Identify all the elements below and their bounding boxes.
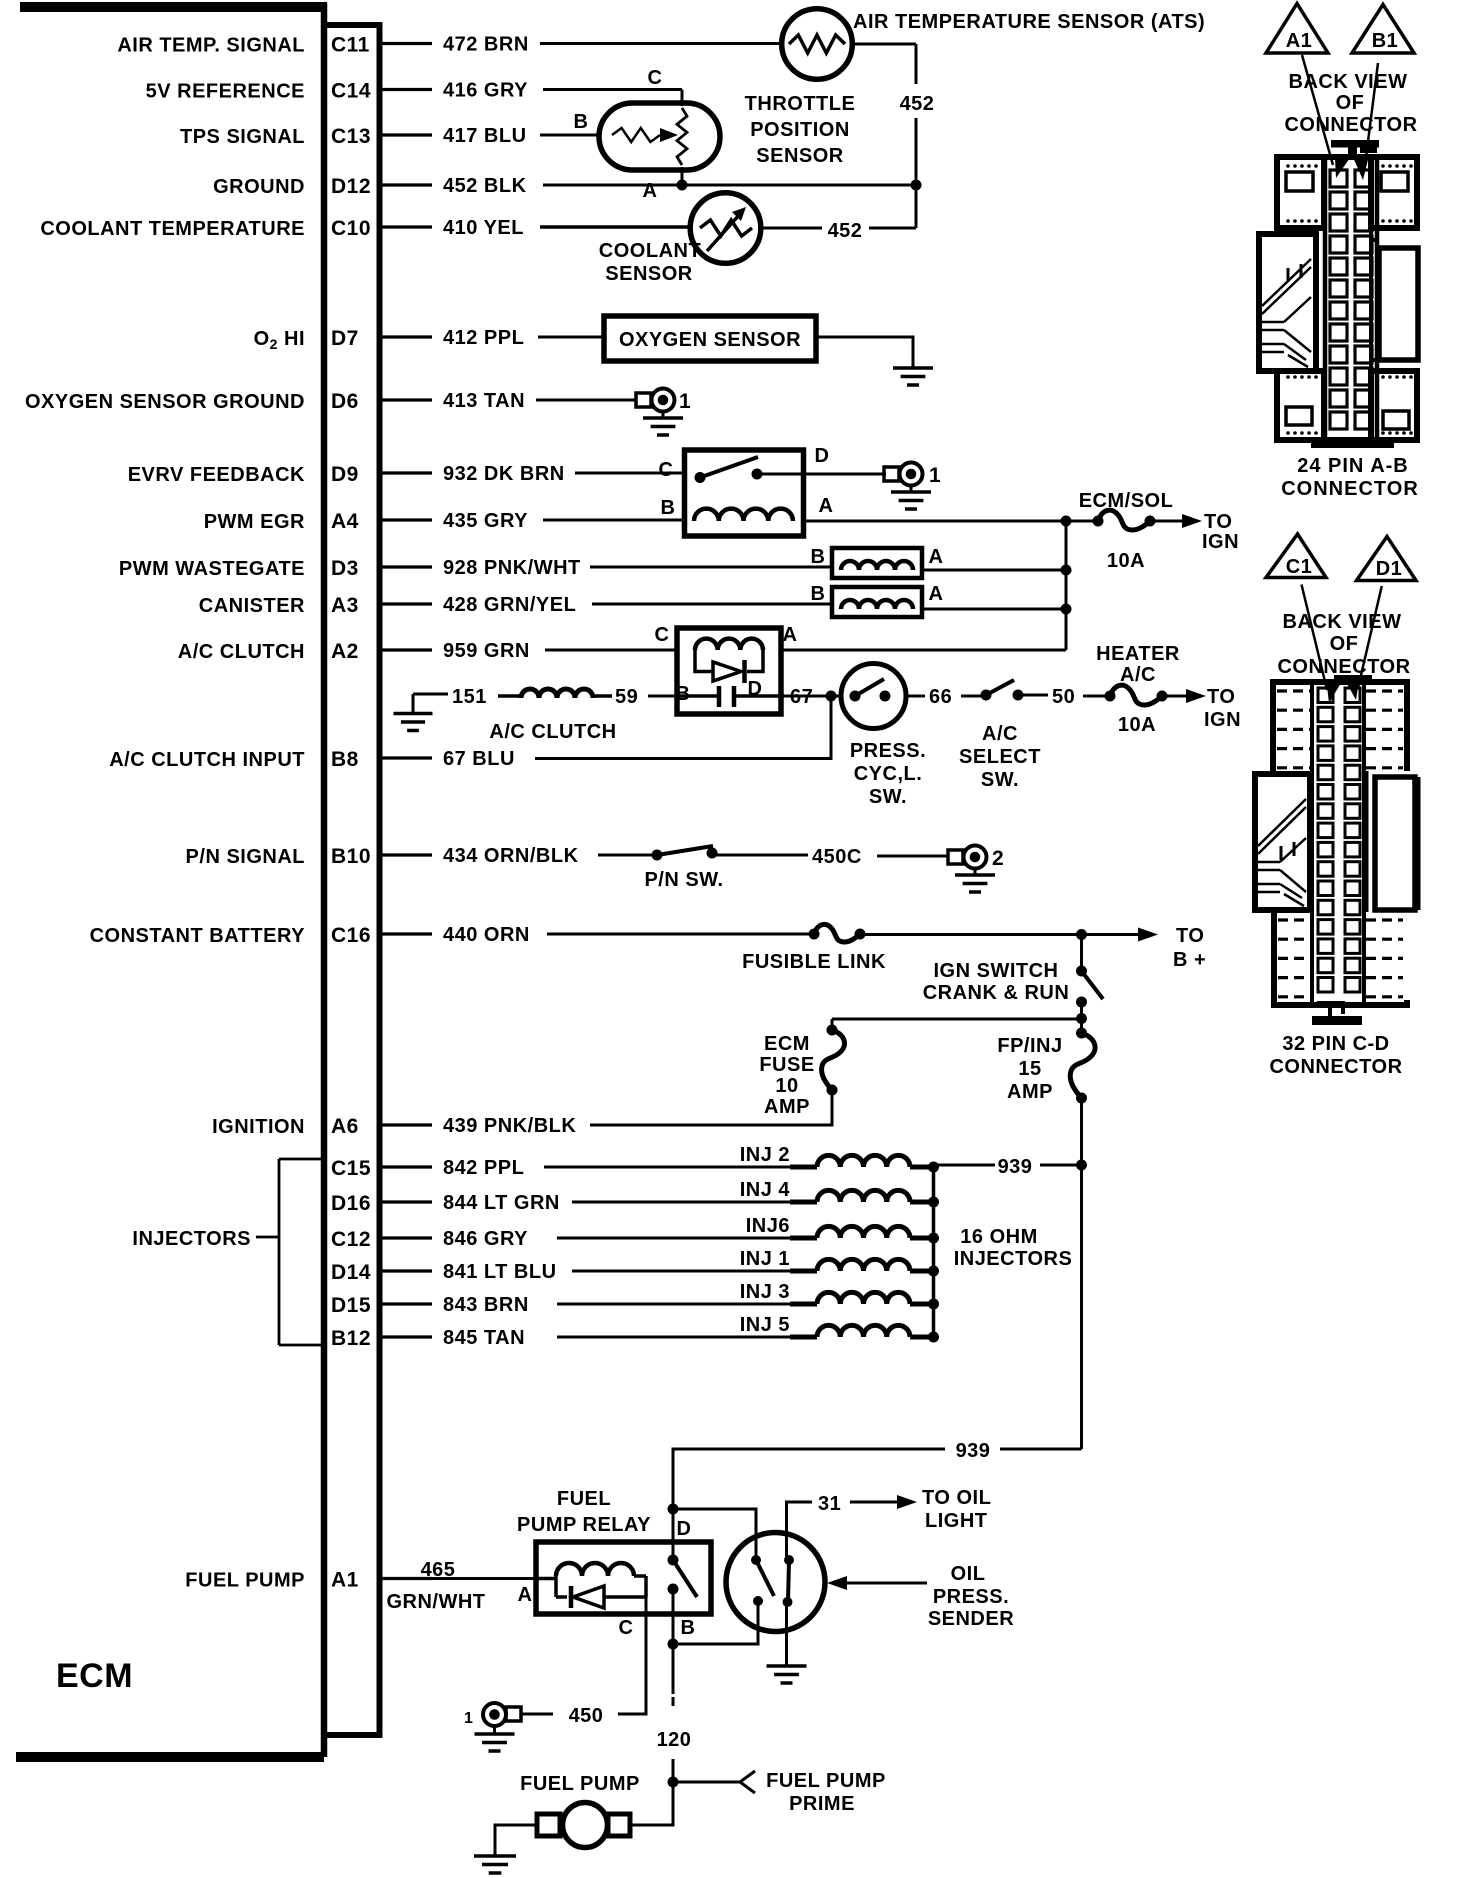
svg-text:ECM/SOL: ECM/SOL bbox=[1079, 490, 1174, 512]
svg-text:ECM: ECM bbox=[56, 1657, 133, 1695]
24-pin pin grid bbox=[1330, 170, 1347, 187]
AC relay coil bbox=[695, 639, 763, 650]
svg-text:HEATERA/C: HEATERA/C bbox=[1096, 643, 1180, 686]
svg-text:B: B bbox=[676, 683, 691, 705]
svg-text:120: 120 bbox=[657, 1729, 692, 1751]
svg-text:C: C bbox=[659, 459, 674, 481]
wire coolant to 452 label bbox=[761, 227, 822, 230]
ring terminal 450 bbox=[506, 1707, 521, 1721]
wire D3 to wastegate coil bbox=[590, 566, 832, 569]
coolant sensor zigzag bbox=[700, 220, 752, 236]
svg-text:D: D bbox=[677, 1518, 692, 1540]
svg-text:BACK VIEWOFCONNECTOR: BACK VIEWOFCONNECTOR bbox=[1277, 611, 1410, 678]
svg-text:932 DK BRN: 932 DK BRN bbox=[443, 463, 565, 485]
ignition switch bbox=[1076, 966, 1087, 977]
wire prime node to motor bbox=[630, 1782, 673, 1825]
svg-text:D3: D3 bbox=[331, 557, 359, 580]
wire branch to ECM fuse bbox=[832, 1018, 1082, 1021]
node B/sender bbox=[668, 1639, 679, 1650]
injectors bracket bbox=[256, 1159, 324, 1345]
svg-text:C11: C11 bbox=[331, 34, 370, 57]
EVRV coil bbox=[694, 509, 793, 521]
ECM box top bar bbox=[20, 2, 327, 12]
svg-text:939: 939 bbox=[956, 1440, 991, 1462]
node A4/fuse bbox=[1061, 516, 1072, 527]
AC relay contact bbox=[717, 686, 722, 707]
svg-text:A3: A3 bbox=[331, 594, 359, 617]
wire ATS to 452 vertical bbox=[852, 43, 916, 46]
wire oxygen sensor to ground bbox=[816, 337, 913, 367]
node 939 bbox=[1076, 1160, 1087, 1171]
wire motor to ground bbox=[495, 1825, 537, 1855]
coolant sensor circle bbox=[690, 193, 761, 264]
arrow TO B+ bbox=[1138, 928, 1158, 942]
24-pin ML hatch bbox=[1288, 264, 1301, 282]
wire PN switch to 450C bbox=[712, 854, 808, 857]
ground (sender) bbox=[767, 1666, 807, 1683]
svg-text:31: 31 bbox=[818, 1493, 841, 1515]
TPS track zigzag bbox=[677, 108, 687, 165]
triangle A1 bbox=[1266, 4, 1328, 54]
wire heater fuse to arrow bbox=[1162, 695, 1187, 698]
svg-text:A1: A1 bbox=[1286, 30, 1313, 52]
oxygen sensor box bbox=[604, 316, 816, 361]
press cyc switch circle bbox=[841, 664, 906, 729]
svg-text:C: C bbox=[648, 67, 663, 89]
fuel pump motor bbox=[537, 1814, 560, 1836]
svg-text:C1: C1 bbox=[1286, 556, 1313, 578]
wire canister to junction bbox=[922, 608, 1066, 611]
wire A3 to canister coil bbox=[592, 603, 832, 606]
svg-text:COOLANTSENSOR: COOLANTSENSOR bbox=[599, 240, 701, 285]
svg-text:B: B bbox=[681, 1617, 696, 1639]
svg-text:413 TAN: 413 TAN bbox=[443, 390, 525, 412]
fuse ECM FUSE 10 AMP bbox=[827, 1025, 838, 1036]
svg-text:FUELPUMP RELAY: FUELPUMP RELAY bbox=[517, 1488, 651, 1536]
452 vertical wire upper bbox=[915, 44, 918, 228]
svg-text:THROTTLEPOSITIONSENSOR: THROTTLEPOSITIONSENSOR bbox=[745, 93, 856, 167]
wire C14 to C corner bbox=[543, 88, 682, 91]
svg-text:IGN: IGN bbox=[1204, 709, 1241, 731]
wire ECM fuse to A6 bbox=[590, 1090, 832, 1125]
svg-text:A/C CLUTCH: A/C CLUTCH bbox=[178, 641, 305, 663]
wire 120 tick bbox=[672, 1697, 675, 1706]
svg-text:CRANK & RUN: CRANK & RUN bbox=[923, 982, 1070, 1004]
wire to B+ arrow bbox=[1082, 933, 1141, 936]
svg-text:59: 59 bbox=[615, 686, 638, 708]
injector INJ 4 bbox=[572, 1201, 790, 1204]
wire TPS bottom to A junction bbox=[681, 167, 684, 185]
wire relay D branch to sender bbox=[673, 1509, 756, 1558]
wire corner down to TPS bbox=[681, 90, 684, 107]
ECM pin column box bbox=[324, 25, 380, 1735]
wire D7 to oxygen sensor bbox=[538, 336, 604, 339]
injector INJ 2 bbox=[544, 1166, 790, 1169]
wire A4 to EVRV B bbox=[543, 519, 685, 522]
svg-text:D7: D7 bbox=[331, 327, 359, 350]
svg-text:452: 452 bbox=[900, 93, 935, 115]
wire FP/INJ fuse down bbox=[1080, 1098, 1083, 1165]
wire 939 to relay corner bbox=[673, 1449, 945, 1506]
wire C10 to coolant sensor bbox=[540, 225, 691, 229]
svg-text:PRIME: PRIME bbox=[789, 1793, 855, 1815]
arrow TO IGN (ECM/SOL) bbox=[1182, 514, 1202, 528]
svg-text:842 PPL: 842 PPL bbox=[443, 1157, 524, 1179]
svg-text:FUSIBLE LINK: FUSIBLE LINK bbox=[742, 951, 886, 973]
oil pressure sender circle bbox=[726, 1533, 825, 1632]
wire C16 to fusible link bbox=[547, 933, 814, 936]
24-pin MR block bbox=[1379, 248, 1418, 360]
svg-text:24 PIN A-BCONNECTOR: 24 PIN A-BCONNECTOR bbox=[1281, 455, 1419, 500]
svg-text:INJ6: INJ6 bbox=[746, 1215, 790, 1237]
leader C1 bbox=[1302, 585, 1328, 691]
svg-text:FUEL PUMP: FUEL PUMP bbox=[520, 1773, 640, 1795]
A/C select switch bbox=[981, 690, 992, 701]
svg-text:1: 1 bbox=[464, 1710, 473, 1727]
wire C11 to ATS bbox=[540, 42, 782, 45]
svg-text:IGNITION: IGNITION bbox=[212, 1116, 305, 1138]
svg-text:D: D bbox=[815, 445, 830, 467]
svg-text:IGN: IGN bbox=[1202, 531, 1239, 553]
svg-text:32 PIN C-DCONNECTOR: 32 PIN C-DCONNECTOR bbox=[1269, 1033, 1402, 1078]
svg-text:A/CSELECTSW.: A/CSELECTSW. bbox=[959, 723, 1041, 791]
svg-text:B: B bbox=[811, 583, 826, 605]
fusible link bbox=[809, 929, 820, 940]
node D3 bbox=[1061, 565, 1072, 576]
wire fusible link to B+ node bbox=[860, 933, 1082, 936]
svg-text:INJ 4: INJ 4 bbox=[740, 1179, 791, 1201]
injector INJ 3 bbox=[557, 1303, 790, 1306]
node B8/press bbox=[826, 691, 837, 702]
svg-text:450: 450 bbox=[569, 1705, 604, 1727]
32-pin bottom tab bbox=[1317, 1003, 1343, 1017]
svg-text:FUEL PUMP: FUEL PUMP bbox=[185, 1570, 305, 1592]
wire coil to 59 bbox=[593, 694, 612, 698]
wire B down bbox=[672, 1589, 675, 1641]
svg-text:IGN SWITCH: IGN SWITCH bbox=[934, 960, 1059, 982]
svg-text:BACK VIEWOFCONNECTOR: BACK VIEWOFCONNECTOR bbox=[1284, 71, 1417, 136]
svg-text:A: A bbox=[518, 1584, 533, 1606]
svg-text:B1: B1 bbox=[1372, 30, 1399, 52]
svg-text:B: B bbox=[661, 497, 676, 519]
svg-text:C: C bbox=[619, 1617, 634, 1639]
svg-text:INJ 2: INJ 2 bbox=[740, 1144, 790, 1166]
svg-text:C: C bbox=[655, 624, 670, 646]
32-pin MR block bbox=[1375, 777, 1415, 910]
svg-text:B10: B10 bbox=[331, 845, 371, 868]
svg-text:C10: C10 bbox=[331, 217, 371, 240]
wire D9 to EVRV C bbox=[575, 472, 685, 475]
svg-text:452: 452 bbox=[828, 220, 863, 242]
svg-text:844 LT GRN: 844 LT GRN bbox=[443, 1192, 560, 1214]
svg-text:A2: A2 bbox=[331, 640, 359, 663]
svg-text:C16: C16 bbox=[331, 924, 371, 947]
wire A2 to AC relay bbox=[545, 649, 677, 652]
node TPS A bbox=[677, 180, 688, 191]
24-pin bottom bar bbox=[1311, 437, 1394, 448]
svg-text:928 PNK/WHT: 928 PNK/WHT bbox=[443, 557, 581, 579]
svg-text:450C: 450C bbox=[812, 846, 862, 868]
svg-text:151: 151 bbox=[452, 686, 487, 708]
triangle B1 bbox=[1352, 5, 1414, 54]
svg-text:D14: D14 bbox=[331, 1261, 371, 1284]
wire D6 to ring terminal bbox=[536, 399, 636, 402]
wire AC relay A to junction bbox=[781, 649, 1066, 652]
wire sender BL to relay B node bbox=[673, 1601, 758, 1644]
wire press sw to 66 bbox=[906, 695, 925, 698]
svg-text:434 ORN/BLK: 434 ORN/BLK bbox=[443, 845, 579, 867]
ATS resistor zigzag bbox=[789, 35, 845, 53]
svg-text:CONSTANT BATTERY: CONSTANT BATTERY bbox=[90, 925, 306, 947]
injector INJ6 bbox=[557, 1237, 790, 1240]
coolant sensor arrow bbox=[707, 214, 740, 251]
injector INJ 5 bbox=[557, 1336, 790, 1339]
wire A1 to relay bbox=[380, 1577, 537, 1580]
svg-text:939: 939 bbox=[998, 1156, 1033, 1178]
FP relay switch bbox=[668, 1555, 679, 1566]
svg-text:ECMFUSE10AMP: ECMFUSE10AMP bbox=[759, 1033, 814, 1118]
ECM box bottom bar bbox=[16, 1752, 324, 1762]
svg-text:452 BLK: 452 BLK bbox=[443, 175, 527, 197]
24-pin ML block bbox=[1259, 234, 1316, 371]
wire 120 to prime node bbox=[672, 1759, 675, 1782]
svg-text:A6: A6 bbox=[331, 1115, 359, 1138]
svg-text:66: 66 bbox=[929, 686, 952, 708]
wire EVRV A to junction bbox=[804, 520, 1067, 523]
32-pin shaft bbox=[1312, 682, 1364, 1003]
svg-text:10A: 10A bbox=[1118, 714, 1156, 736]
wire B10 to PN switch bbox=[598, 854, 657, 857]
svg-text:GROUND: GROUND bbox=[213, 176, 305, 198]
svg-text:OILPRESS.SENDER: OILPRESS.SENDER bbox=[928, 1563, 1014, 1630]
wire bus to 939 bbox=[934, 1164, 996, 1167]
24-pin connector top tab bbox=[1331, 140, 1379, 148]
32-pin upper section bbox=[1273, 682, 1407, 774]
ring terminal ground 2 bbox=[948, 850, 963, 864]
svg-text:5V REFERENCE: 5V REFERENCE bbox=[146, 81, 305, 103]
svg-text:A: A bbox=[819, 495, 834, 517]
wire fuse to arrow bbox=[1150, 520, 1183, 523]
wire junction to fuse bbox=[1066, 520, 1096, 523]
arrow OIL PRESS SENDER bbox=[827, 1576, 847, 1590]
svg-text:AIR TEMP. SIGNAL: AIR TEMP. SIGNAL bbox=[117, 35, 305, 57]
wire B+ node to ign switch bbox=[1080, 935, 1083, 968]
fuse ECM/SOL bbox=[1093, 516, 1104, 527]
svg-text:P/N SW.: P/N SW. bbox=[644, 869, 723, 891]
wire 452 label to vertical bbox=[869, 227, 916, 230]
svg-text:A/C CLUTCH INPUT: A/C CLUTCH INPUT bbox=[109, 749, 305, 771]
32-pin ML block bbox=[1255, 774, 1310, 910]
ECM box right edge bbox=[321, 3, 328, 1757]
svg-text:A1: A1 bbox=[331, 1569, 359, 1592]
FP relay diode bbox=[556, 1595, 567, 1599]
wire select sw to 50 bbox=[1018, 694, 1048, 697]
svg-text:TO: TO bbox=[1207, 686, 1235, 708]
node relay D top bbox=[668, 1504, 679, 1515]
wire 450 to ring bbox=[521, 1713, 553, 1716]
svg-text:439 PNK/BLK: 439 PNK/BLK bbox=[443, 1115, 576, 1137]
svg-text:841 LT BLU: 841 LT BLU bbox=[443, 1261, 557, 1283]
wire 450C to ring terminal bbox=[877, 855, 948, 858]
svg-text:A: A bbox=[929, 583, 944, 605]
ground (fuel pump) bbox=[474, 1856, 516, 1873]
svg-text:416 GRY: 416 GRY bbox=[443, 80, 528, 102]
P/N switch bbox=[652, 850, 663, 861]
wire D12 bbox=[543, 184, 916, 187]
PWM wastegate solenoid box bbox=[832, 548, 922, 578]
svg-text:TPS SIGNAL: TPS SIGNAL bbox=[180, 126, 305, 148]
node fuel pump prime bbox=[668, 1777, 679, 1788]
svg-text:COOLANT TEMPERATURE: COOLANT TEMPERATURE bbox=[40, 218, 305, 240]
node A3 bbox=[1061, 604, 1072, 615]
svg-text:INJ 1: INJ 1 bbox=[740, 1248, 790, 1270]
svg-text:D9: D9 bbox=[331, 463, 359, 486]
svg-text:D1: D1 bbox=[1376, 558, 1403, 580]
svg-text:INJ 5: INJ 5 bbox=[740, 1314, 790, 1336]
junction vertical (fuse bus) bbox=[1065, 521, 1068, 650]
wire ign switch down bbox=[1080, 1002, 1083, 1033]
svg-text:16 OHMINJECTORS: 16 OHMINJECTORS bbox=[954, 1226, 1073, 1270]
svg-text:845 TAN: 845 TAN bbox=[443, 1327, 525, 1349]
svg-text:P/N SIGNAL: P/N SIGNAL bbox=[186, 846, 305, 868]
TPS resistor zigzag bbox=[612, 128, 660, 142]
wire 939 vertical bbox=[1080, 1165, 1083, 1449]
32-pin top tab bbox=[1334, 675, 1372, 682]
wire prime branch bbox=[673, 1781, 740, 1784]
wire C13 to TPS B bbox=[540, 134, 600, 137]
svg-text:2: 2 bbox=[992, 847, 1004, 870]
press cyc switch contacts bbox=[850, 691, 861, 702]
svg-text:D16: D16 bbox=[331, 1192, 371, 1215]
32-pin ML hatch bbox=[1281, 842, 1294, 860]
fuse FP/INJ 15 AMP bbox=[1076, 1028, 1087, 1039]
wire ECM fuse top corner bbox=[831, 1019, 834, 1030]
svg-text:B: B bbox=[574, 111, 589, 133]
svg-text:417 BLU: 417 BLU bbox=[443, 125, 527, 147]
leader A1 bbox=[1302, 55, 1333, 165]
svg-text:LIGHT: LIGHT bbox=[925, 1510, 988, 1532]
wire 59 to AC relay B bbox=[648, 695, 677, 698]
TPS wiper arrow bbox=[660, 128, 678, 142]
ring terminal ground 1 (D6) bbox=[636, 393, 651, 407]
svg-text:C12: C12 bbox=[331, 1228, 371, 1251]
svg-text:1: 1 bbox=[929, 464, 941, 487]
EVRV switch bbox=[695, 472, 706, 483]
svg-text:A/C CLUTCH: A/C CLUTCH bbox=[489, 721, 616, 743]
svg-text:50: 50 bbox=[1052, 686, 1075, 708]
svg-text:B +: B + bbox=[1173, 949, 1206, 971]
wire 939 to FP/INJ node bbox=[1040, 1164, 1082, 1167]
fuel pump relay box bbox=[536, 1542, 711, 1614]
injector bus bbox=[932, 1167, 936, 1337]
24-pin LL wing bbox=[1277, 371, 1324, 440]
24-pin wing stitch dots bbox=[1286, 164, 1290, 168]
wire C to 450 bbox=[618, 1597, 646, 1714]
svg-text:INJ 3: INJ 3 bbox=[740, 1281, 790, 1303]
svg-text:OXYGEN SENSOR GROUND: OXYGEN SENSOR GROUND bbox=[25, 391, 305, 413]
svg-text:FP/INJ15AMP: FP/INJ15AMP bbox=[997, 1035, 1062, 1103]
svg-text:846 GRY: 846 GRY bbox=[443, 1228, 528, 1250]
svg-text:PRESS.CYC,L.SW.: PRESS.CYC,L.SW. bbox=[850, 740, 926, 808]
ring terminal ground 1 (EVRV) bbox=[884, 467, 899, 481]
svg-text:INJECTORS: INJECTORS bbox=[132, 1228, 251, 1250]
svg-text:O2 HI: O2 HI bbox=[254, 328, 305, 352]
svg-text:440 ORN: 440 ORN bbox=[443, 924, 530, 946]
ground (151) bbox=[412, 694, 415, 713]
EVRV relay box bbox=[685, 450, 804, 536]
wire EVRV D to ring terminal bbox=[757, 473, 886, 476]
canister solenoid box bbox=[832, 587, 922, 617]
svg-text:B8: B8 bbox=[331, 748, 359, 771]
svg-text:435 GRY: 435 GRY bbox=[443, 510, 528, 532]
svg-text:GRN/WHT: GRN/WHT bbox=[386, 1591, 485, 1613]
24-pin LR wing bbox=[1371, 371, 1417, 440]
air temperature sensor ATS circle bbox=[782, 9, 853, 80]
node 452/D12 bbox=[911, 180, 922, 191]
wire B8 bbox=[535, 696, 831, 759]
svg-text:843 BRN: 843 BRN bbox=[443, 1294, 529, 1316]
fuse HEATER A/C bbox=[1105, 691, 1116, 702]
wire B node down bbox=[672, 1644, 675, 1694]
wire ground to 151 bbox=[413, 693, 448, 696]
svg-text:OXYGEN SENSOR: OXYGEN SENSOR bbox=[619, 329, 801, 351]
svg-text:A: A bbox=[643, 180, 658, 202]
wastegate coil bbox=[841, 561, 913, 570]
wire 31 from sender bbox=[787, 1502, 813, 1560]
node B+ branch bbox=[1076, 929, 1087, 940]
throttle position sensor body bbox=[599, 103, 720, 170]
ground (oxygen sensor) bbox=[893, 368, 933, 385]
wire 31 to arrow bbox=[850, 1501, 897, 1504]
32-pin pin grid bbox=[1318, 688, 1333, 703]
wire 66 to select sw bbox=[961, 695, 985, 698]
24-pin shaft bbox=[1325, 157, 1377, 443]
node ECM fuse branch bbox=[1076, 1013, 1087, 1024]
svg-text:PWM WASTEGATE: PWM WASTEGATE bbox=[119, 558, 305, 580]
svg-text:CANISTER: CANISTER bbox=[199, 595, 305, 617]
svg-text:D12: D12 bbox=[331, 175, 371, 198]
wire AC relay D to press sw bbox=[781, 695, 841, 698]
32-pin lower wing dashes bbox=[1278, 918, 1311, 921]
svg-text:959 GRN: 959 GRN bbox=[443, 640, 530, 662]
svg-text:A: A bbox=[929, 546, 944, 568]
wire sender BR to ground bbox=[785, 1602, 788, 1665]
canister coil bbox=[841, 600, 913, 609]
AC clutch relay box bbox=[677, 628, 781, 714]
svg-text:A4: A4 bbox=[331, 510, 359, 533]
svg-text:428 GRN/YEL: 428 GRN/YEL bbox=[443, 594, 576, 616]
arrow TO OIL LIGHT bbox=[897, 1495, 917, 1509]
svg-text:10A: 10A bbox=[1107, 550, 1145, 572]
32-pin upper wing dashes bbox=[1277, 689, 1311, 692]
leader D1 bbox=[1358, 586, 1382, 688]
24-pin UR wing bbox=[1371, 157, 1417, 228]
svg-text:FUEL PUMP: FUEL PUMP bbox=[766, 1770, 886, 1792]
wire wastegate to junction bbox=[922, 569, 1066, 572]
svg-text:410 YEL: 410 YEL bbox=[443, 217, 524, 239]
triangle D1 bbox=[1357, 537, 1417, 581]
A/C clutch coil bbox=[521, 689, 593, 698]
svg-text:D: D bbox=[748, 678, 763, 700]
injector INJ 1 bbox=[572, 1270, 790, 1273]
svg-text:AIR TEMPERATURE SENSOR (ATS): AIR TEMPERATURE SENSOR (ATS) bbox=[853, 11, 1205, 33]
svg-text:TO: TO bbox=[1204, 511, 1232, 533]
svg-text:412 PPL: 412 PPL bbox=[443, 327, 524, 349]
svg-text:B12: B12 bbox=[331, 1327, 371, 1350]
svg-text:EVRV FEEDBACK: EVRV FEEDBACK bbox=[128, 464, 305, 486]
svg-text:C13: C13 bbox=[331, 125, 371, 148]
svg-text:TO OIL: TO OIL bbox=[922, 1487, 991, 1509]
